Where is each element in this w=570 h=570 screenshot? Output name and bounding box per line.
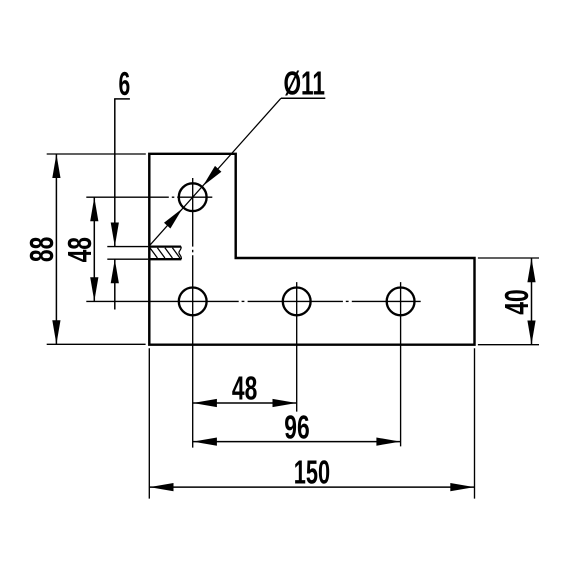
hole bottom 3 [387,288,415,316]
dimension 48 bottom arrow left [193,399,217,407]
centerline bottom row dot 1 [242,300,245,302]
centerline top hole horizontal dot [172,196,175,198]
section hatch line 2 [157,248,165,258]
dimension 150 arrow right [450,483,474,491]
part outline (L-shaped plate) [149,154,474,345]
centerline top hole horizontal dash (also extension for 48 dim) [86,196,169,198]
section hatch line 4 [172,248,180,258]
extension line 6 bottom [107,258,148,260]
dimension 48 vertical line [93,197,95,301]
extension line 6 top [107,246,148,248]
extension line 88 top [47,153,146,155]
dimension 48 bottom arrow right [273,399,297,407]
svg-text:150: 150 [294,454,330,491]
extension line 40 top [478,257,539,259]
hole top (upper hole in vertical arm) [179,183,207,211]
extension line 40 bottom [478,344,539,346]
dimension 40 arrow down [527,321,535,345]
svg-text:6: 6 [119,65,131,102]
dimension 40 line [531,258,533,345]
extension line 150 left [148,348,150,498]
centerline top hole horizontal dash 2 [177,196,212,198]
dimension 96 arrow left [193,438,217,446]
svg-text:48: 48 [61,237,98,262]
dimension 6 arrow down [111,223,119,247]
dimension 6 arrow up [111,259,119,283]
dimension 48 vertical arrow up [90,197,98,221]
centerline bottom row dash 2 [248,300,343,302]
dimension 6 upper line [114,99,116,247]
centerline hole1 vertical long (also extension for 48/96 dims) [192,255,194,447]
section hatch bottom border [149,258,181,260]
leader O11 arrow upper (points to hole edge) [203,166,222,186]
svg-text:Ø11: Ø11 [283,64,325,101]
dimension 88 arrow down [52,320,60,344]
centerline hole2 vertical (also extension for 48 dim below) [296,282,298,412]
dimension 48 vertical arrow down [90,277,98,301]
dimension 88 arrow up [52,154,60,178]
dimension 6 underline [114,98,130,100]
leader O11 underline [281,97,325,99]
hole bottom 2 [283,288,311,316]
dimension 48 bottom line [193,402,297,404]
dimension 6 lower line [114,259,116,309]
centerline top hole vertical dot [192,250,194,253]
centerline bottom row dot 2 [346,300,349,302]
section hatch line 1 [150,248,158,258]
leader O11 arrow lower (points to hole edge) [164,208,183,228]
dimension 88 line [55,154,57,345]
svg-text:48: 48 [232,370,257,407]
svg-text:96: 96 [284,409,309,446]
extension line 88 bottom [47,343,146,345]
leader O11 diagonal [150,98,281,245]
extension line 150 right [474,348,476,498]
svg-text:88: 88 [23,237,60,262]
dimension 40 arrow up [527,258,535,282]
centerline hole3 vertical (also extension for 96 dim below) [400,282,402,446]
hole bottom 1 [179,288,207,316]
centerline bottom row dash 1 (from 48-dim extension into part) [86,300,238,302]
dimension 96 line [193,441,401,443]
section hatch break edge [179,247,181,260]
centerline bottom row dash 3 [352,300,421,302]
centerline top hole vertical dash [192,178,194,247]
dimension 96 arrow right [376,438,400,446]
svg-text:40: 40 [498,289,535,314]
section hatch top border [149,245,181,247]
dimension 150 arrow left [150,483,174,491]
section hatch line 3 [165,248,173,258]
dimension 150 line [149,486,474,488]
